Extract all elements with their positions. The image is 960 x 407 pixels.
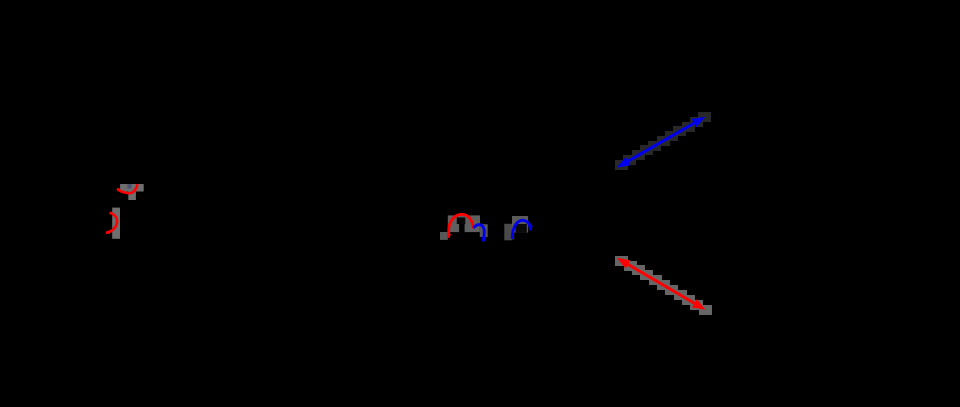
blue arrow F left head: [617, 157, 631, 168]
red arrow G right head: [692, 299, 706, 310]
label box behind arrow A (horizontal bar): [120, 184, 144, 192]
blue curly arrow D (hook): [473, 225, 484, 242]
red arrow G left head: [617, 258, 631, 269]
label box c1 lower-right part: [465, 224, 480, 232]
blue arrow F right head: [692, 117, 706, 128]
red curly arrow C (arch): [448, 214, 473, 237]
halo staircase of blue straight arrow F: [615, 112, 711, 170]
blue curly arrow E (arch): [512, 220, 530, 238]
dark sliver below box e2: [512, 233, 514, 240]
halo staircase of red straight arrow G: [615, 256, 712, 315]
label box e2 behind blue arch E: [512, 216, 528, 233]
label box c2 lower-left small: [440, 232, 448, 240]
label box c1 lower-left part: [448, 224, 459, 232]
red straight double arrow G shaft: [622, 261, 700, 306]
label box e1 dark: [504, 224, 512, 241]
blue straight double arrow F shaft: [623, 120, 700, 164]
label box c3 right of blue hook D: [480, 224, 488, 237]
label box behind arrow A (vertical bar): [128, 192, 136, 201]
bluish tint patch in box A: [127, 184, 131, 188]
label box behind arrow B: [112, 208, 120, 239]
black cutout inside box e2 (structure drawn over): [516, 224, 527, 233]
red curly arrow B: [106, 213, 117, 233]
label box c1 top band (behind red arch C): [448, 215, 480, 224]
red curly arrow A: [117, 184, 137, 193]
black cutout inside c1 band (atom label over box): [457, 217, 466, 224]
